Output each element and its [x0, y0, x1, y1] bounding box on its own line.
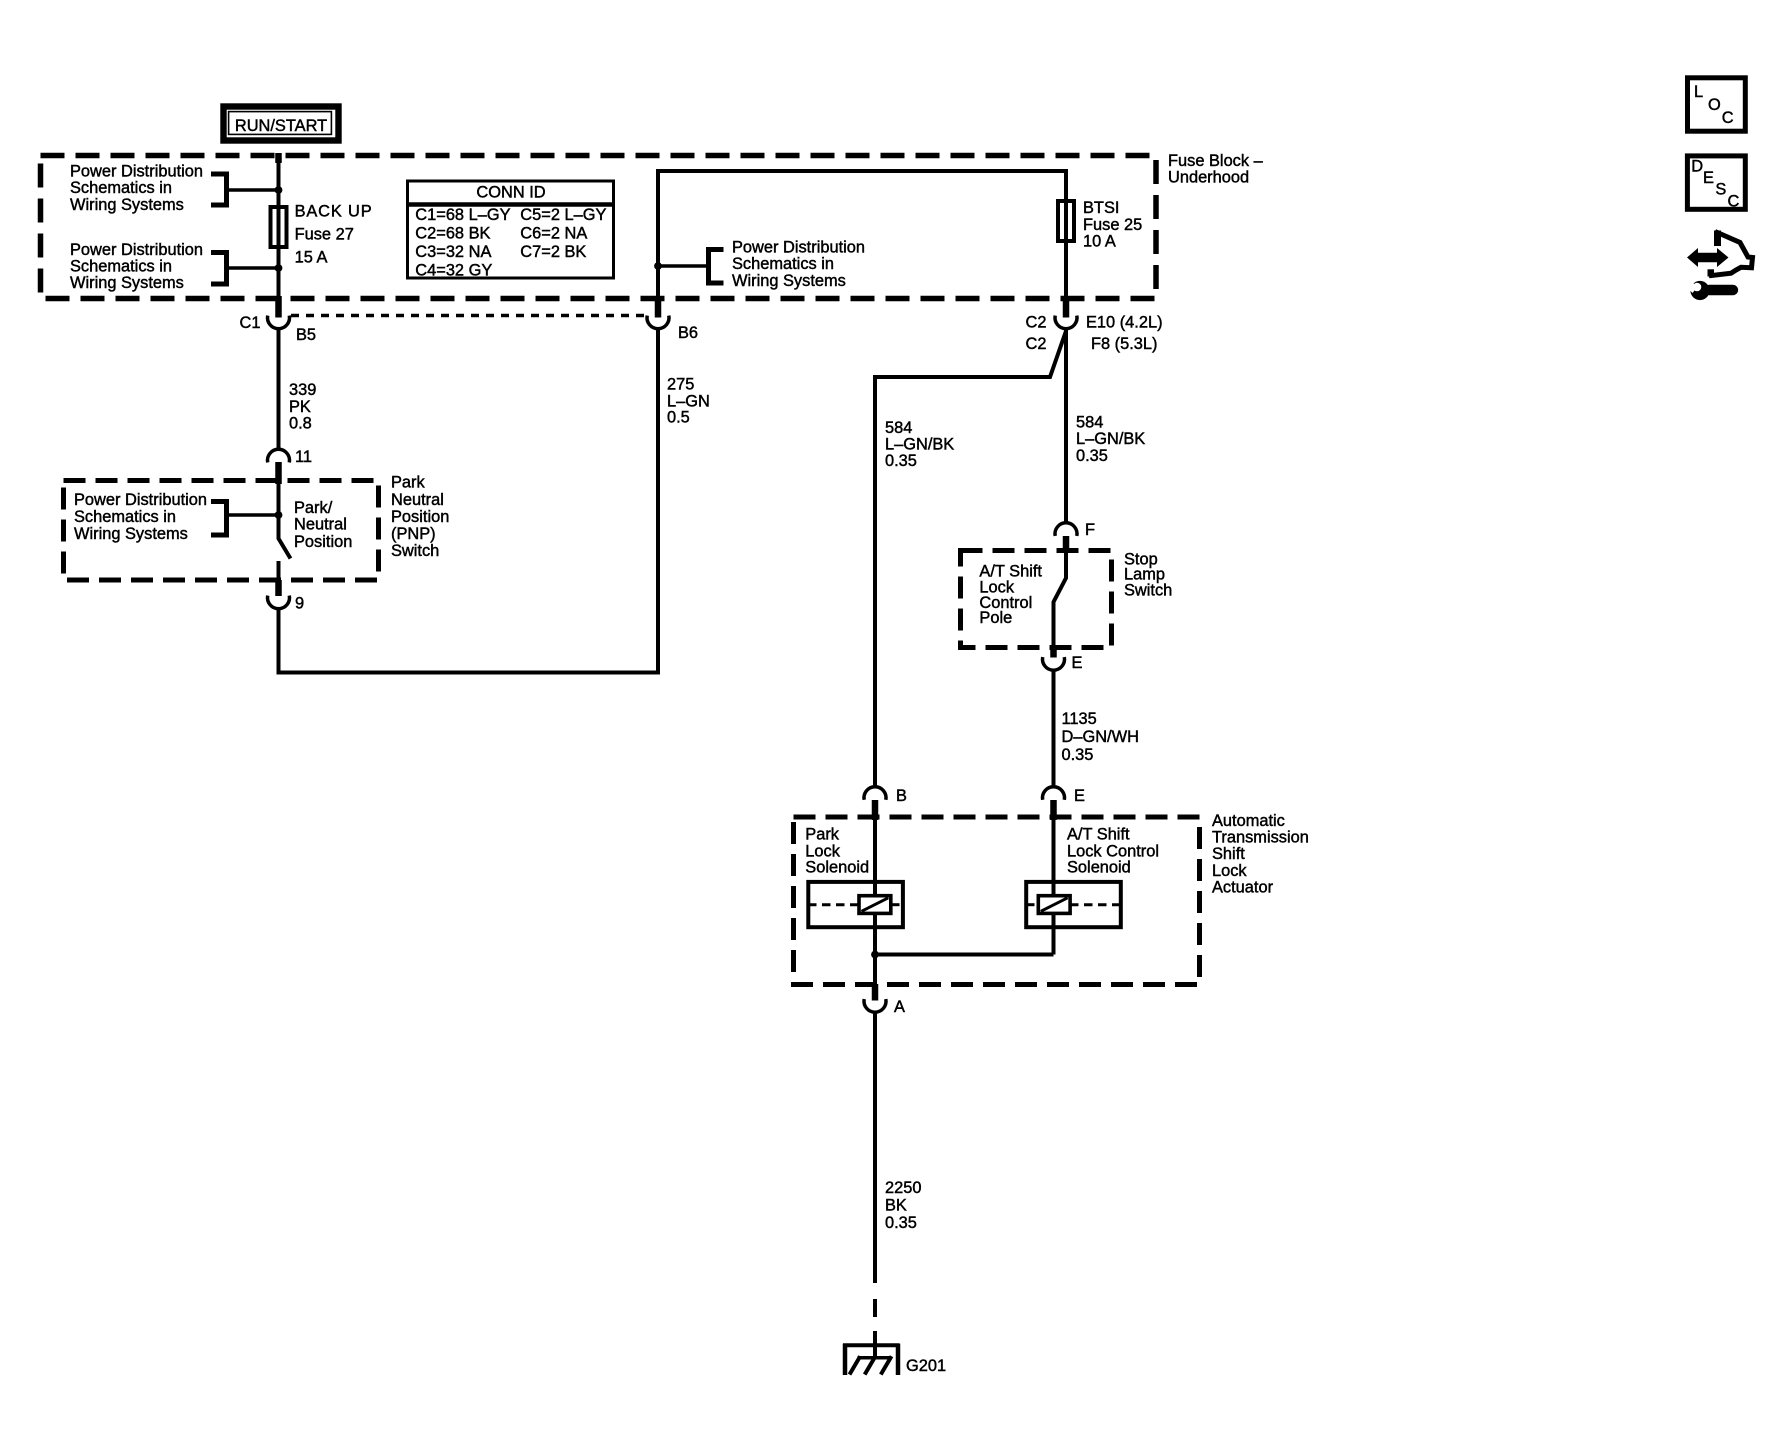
svg-text:C7=2 BK: C7=2 BK: [520, 243, 586, 261]
svg-text:Power Distribution: Power Distribution: [70, 241, 203, 259]
svg-text:Position: Position: [294, 533, 352, 551]
svg-text:Power Distribution: Power Distribution: [70, 163, 203, 181]
svg-text:Neutral: Neutral: [294, 516, 347, 534]
svg-text:C5=2 L–GY: C5=2 L–GY: [520, 206, 606, 224]
svg-text:Fuse Block –: Fuse Block –: [1168, 152, 1264, 170]
svg-text:Fuse 27: Fuse 27: [295, 225, 354, 243]
svg-text:584: 584: [885, 419, 912, 437]
svg-text:C2=68 BK: C2=68 BK: [415, 225, 490, 243]
svg-text:S: S: [1715, 180, 1726, 198]
svg-text:275: 275: [667, 376, 694, 394]
svg-text:Wiring Systems: Wiring Systems: [74, 525, 188, 543]
svg-text:Pole: Pole: [979, 609, 1012, 627]
svg-text:Actuator: Actuator: [1212, 878, 1274, 896]
svg-text:C: C: [1722, 109, 1734, 127]
svg-text:Solenoid: Solenoid: [1067, 858, 1131, 876]
svg-text:Power Distribution: Power Distribution: [74, 491, 207, 509]
svg-text:Park/: Park/: [294, 499, 333, 517]
svg-text:Park: Park: [805, 826, 840, 844]
svg-text:Shift: Shift: [1212, 845, 1245, 863]
svg-text:C1: C1: [240, 314, 261, 332]
svg-text:Underhood: Underhood: [1168, 169, 1249, 187]
svg-text:0.35: 0.35: [885, 452, 917, 470]
svg-text:RUN/START: RUN/START: [235, 117, 327, 135]
svg-text:E: E: [1703, 169, 1714, 187]
svg-text:L–GN/BK: L–GN/BK: [885, 436, 954, 454]
svg-text:C3=32 NA: C3=32 NA: [415, 243, 491, 261]
svg-text:15 A: 15 A: [295, 248, 328, 266]
svg-text:CONN ID: CONN ID: [476, 183, 545, 201]
svg-text:0.5: 0.5: [667, 409, 690, 427]
svg-text:Wiring Systems: Wiring Systems: [70, 274, 184, 292]
svg-text:0.35: 0.35: [1076, 447, 1108, 465]
svg-text:BACK UP: BACK UP: [295, 202, 373, 220]
svg-text:11: 11: [295, 448, 312, 466]
svg-text:Transmission: Transmission: [1212, 829, 1309, 847]
svg-text:E: E: [1072, 654, 1083, 672]
svg-text:B: B: [896, 787, 907, 805]
svg-text:A: A: [894, 998, 905, 1016]
svg-text:584: 584: [1076, 414, 1103, 432]
svg-text:Solenoid: Solenoid: [805, 858, 869, 876]
svg-text:Schematics in: Schematics in: [70, 179, 172, 197]
svg-text:F: F: [1085, 521, 1095, 539]
svg-text:C4=32 GY: C4=32 GY: [415, 262, 492, 280]
svg-text:B6: B6: [678, 324, 698, 342]
svg-text:10 A: 10 A: [1083, 233, 1116, 251]
svg-text:E10 (4.2L): E10 (4.2L): [1086, 314, 1163, 332]
svg-text:0.35: 0.35: [1062, 746, 1094, 764]
svg-text:F8 (5.3L): F8 (5.3L): [1091, 335, 1158, 353]
svg-text:(PNP): (PNP): [391, 525, 436, 543]
svg-text:L–GN/BK: L–GN/BK: [1076, 430, 1145, 448]
svg-text:Lock: Lock: [1212, 862, 1247, 880]
svg-text:D–GN/WH: D–GN/WH: [1062, 728, 1139, 746]
svg-text:Automatic: Automatic: [1212, 812, 1285, 830]
svg-text:A/T Shift: A/T Shift: [1067, 826, 1130, 844]
svg-text:L–GN: L–GN: [667, 392, 710, 410]
svg-text:L: L: [1694, 83, 1703, 101]
svg-text:Neutral: Neutral: [391, 491, 444, 509]
svg-text:Switch: Switch: [391, 542, 439, 560]
svg-text:O: O: [1708, 96, 1721, 114]
svg-text:Schematics in: Schematics in: [74, 508, 176, 526]
svg-text:PK: PK: [289, 398, 311, 416]
svg-text:Switch: Switch: [1124, 581, 1172, 599]
svg-text:Fuse 25: Fuse 25: [1083, 216, 1142, 234]
svg-text:0.35: 0.35: [885, 1214, 917, 1232]
svg-text:G201: G201: [906, 1357, 946, 1375]
svg-text:C2: C2: [1026, 314, 1047, 332]
svg-text:C2: C2: [1026, 335, 1047, 353]
svg-text:9: 9: [295, 595, 304, 613]
svg-text:Position: Position: [391, 508, 449, 526]
svg-text:C6=2 NA: C6=2 NA: [520, 225, 587, 243]
svg-text:Wiring Systems: Wiring Systems: [70, 196, 184, 214]
svg-text:Wiring Systems: Wiring Systems: [732, 272, 846, 290]
svg-text:2250: 2250: [885, 1179, 921, 1197]
svg-text:D: D: [1691, 158, 1703, 176]
svg-text:Park: Park: [391, 473, 426, 491]
svg-text:0.8: 0.8: [289, 415, 312, 433]
svg-text:B5: B5: [296, 326, 316, 344]
svg-text:BK: BK: [885, 1197, 907, 1215]
svg-text:E: E: [1074, 787, 1085, 805]
svg-text:Schematics in: Schematics in: [70, 258, 172, 276]
svg-text:1135: 1135: [1062, 710, 1097, 728]
svg-text:Schematics in: Schematics in: [732, 255, 834, 273]
svg-text:BTSI: BTSI: [1083, 199, 1119, 217]
svg-text:Power Distribution: Power Distribution: [732, 239, 865, 257]
svg-text:339: 339: [289, 381, 316, 399]
svg-text:C: C: [1728, 192, 1740, 210]
svg-text:C1=68 L–GY: C1=68 L–GY: [415, 206, 510, 224]
